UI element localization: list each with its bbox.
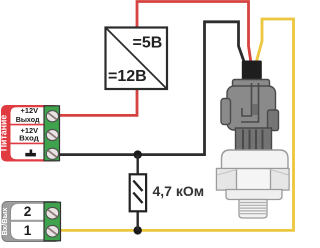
threaded stub — [239, 200, 267, 219]
svg-text:=12В: =12В — [108, 68, 147, 85]
terminal strip (green) — [44, 106, 60, 161]
hex nut — [217, 169, 290, 191]
body shoulder (metal) — [222, 150, 289, 170]
connector left ear — [221, 99, 231, 125]
svg-text:1: 1 — [24, 223, 32, 238]
washer step — [226, 190, 282, 200]
screw 3 — [46, 148, 58, 159]
svg-text:+12V: +12V — [21, 106, 39, 115]
sensor: pressure sensor assembly — [217, 61, 290, 219]
connector right tab — [268, 110, 279, 131]
wire: black ground from terminal to sensor — [56, 22, 245, 155]
connector clip detail — [242, 83, 252, 116]
svg-text:Вход: Вход — [19, 134, 39, 143]
terminal strip (green) — [44, 202, 61, 241]
svg-text:Выход: Выход — [16, 115, 40, 124]
node: junction yellow line / resistor bottom — [134, 226, 142, 234]
connector top neck — [233, 80, 270, 91]
svg-text:4,7 кОм: 4,7 кОм — [153, 183, 205, 199]
wire boot (black) — [242, 61, 262, 81]
svg-text:Питание: Питание — [0, 115, 9, 152]
node: junction black line / resistor top — [134, 150, 142, 158]
terminal block: Питание — [0, 105, 60, 162]
wire: resistor bottom lead — [136, 211, 138, 230]
wire: red +12V from converter top to sensor — [137, 2, 251, 64]
wire: yellow signal from sensor to Вх/Вых terminal 1 — [56, 19, 294, 230]
wire: red from converter bottom to +12V Выход terminal — [56, 89, 137, 115]
wire: resistor top lead — [136, 155, 138, 175]
svg-text:Вх/Вых: Вх/Вых — [0, 207, 9, 236]
screw 2 — [46, 129, 58, 140]
svg-text:2: 2 — [24, 204, 32, 219]
svg-text:=5В: =5В — [133, 35, 163, 52]
converter U1 (=5В/=12В DC-DC) — [106, 28, 168, 90]
screw 1 — [46, 225, 59, 237]
ground pin symbol — [30, 150, 33, 154]
connector main body — [227, 86, 276, 130]
connector bottom collar — [236, 128, 272, 150]
resistor R1 — [130, 174, 146, 211]
screw 2 — [46, 207, 59, 219]
screw 1 — [46, 111, 58, 122]
terminal block: Вх/Вых — [0, 202, 61, 242]
